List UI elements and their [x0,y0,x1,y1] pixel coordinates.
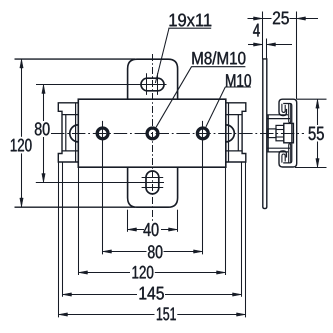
right cap inner face [228,103,230,162]
clamp bottom arm upper edge [267,147,290,149]
left cap semicircle [70,125,79,142]
dimension line 4 right tail [267,44,293,46]
extension line 4 right [266,39,268,59]
extension line 151 left [58,162,60,317]
hole center M8/M10 [147,128,158,139]
left cap inner step lower [62,150,78,152]
crosshair/extension line through left hole [102,121,104,255]
label 55 at (315.9,133.4) [309,127,324,140]
extension line 80-dim bottom / bottom slot centerline [36,182,164,184]
side view bottom lip u [289,144,291,163]
dimension line 25 right tail [290,18,319,20]
arrow 80 down [42,174,45,183]
right end cap outline [226,103,246,162]
dimension line 120 vertical [21,59,23,137]
arrow 120 up [20,59,23,68]
right cap inner step lower [226,150,242,152]
top slot tick right [157,73,159,95]
label 120 at (142.4,272.2) [133,266,154,279]
underline 19x11 [168,27,211,29]
side view C-profile inner wall [283,104,292,163]
leader M10 [206,87,225,127]
right cap inner step upper [226,114,242,116]
left end cap outline [58,103,78,162]
label 40 at (150.8,229.5) [143,223,158,236]
extension line 40 left [127,210,129,232]
right cap semicircle [226,125,235,142]
clamp flange inner lower line [276,136,284,138]
clamp top arm lower edge [267,118,290,120]
clamp stem rect [268,129,276,138]
extension line 25 right [296,12,298,100]
underline M10 [225,86,251,88]
dimension line 151 [59,314,155,316]
arrow 55 up [316,99,319,108]
arrow 25 left [254,17,263,20]
extension line 120-dim bottom [15,206,136,208]
side view top hook inner curl [282,104,285,113]
clamp big square [284,123,294,142]
arrow 145 right [233,293,242,296]
top mounting tab [128,59,178,99]
arrow 120b right [217,271,226,274]
bottom slot tick upper [142,177,164,179]
extension line 145 right [241,162,243,297]
extension line 151 right [245,162,247,317]
arrow 145 left [63,293,72,296]
clamp bottom arm lower edge [267,151,288,153]
label 80 at (154.9,251.8) [148,245,162,258]
leader M8/M10 [156,67,191,128]
vertical centerline [152,54,154,223]
extension line 145 left [62,162,64,297]
underline M8/M10 [191,66,245,68]
extension line 55 top [297,98,327,100]
left cap inner face [75,103,77,162]
arrow 151 right [237,313,246,316]
clamp left vertical against plate [267,115,269,152]
bottom slot tick lower [142,187,164,189]
dimension line 145 [63,294,138,296]
dimension line 25 left tail [248,18,272,20]
dimension line 80 bottom [103,251,147,253]
arrow 151 left [59,313,68,316]
extension line 120-dim top [15,58,136,60]
dimension line 40 [128,229,145,231]
side view mounting plate [263,59,267,209]
left cap inner vertical [65,115,67,151]
label 120 at (20.7,145.1) [11,139,32,152]
arrow 80b left [103,250,112,253]
label 151 at (165.9,313.9) [157,308,176,321]
label 4 at (256.3,30.1) [253,24,260,37]
crosshair/extension line through right hole [202,121,204,255]
top slot tick left [146,73,148,95]
right cap inner vertical [237,115,239,151]
extension line 40 right [177,210,179,232]
arrow 40 right [169,228,178,231]
horizontal centerline [51,133,304,135]
arrow 80 up [42,85,45,94]
label 19x11 at (189.8,20.0) [170,14,212,27]
label 25 at (280.5,17.9) [273,12,289,25]
extension line 25 left [262,12,264,59]
clamp flange inner upper line [276,129,284,131]
bottom slot 11x19 [146,171,159,194]
body (front view main rectangle) [78,99,226,167]
arrow 25 right [297,17,306,20]
arrow 4 right [267,43,276,46]
dimension line 4 left tail [248,44,263,46]
dimension line 80 vertical [43,85,45,122]
dimension line 120 bottom [79,272,131,274]
label 145 at (151.1,293.2) [140,287,164,300]
side view top lip hanging u [289,104,291,123]
label M10 at (238.0,80.5) [226,74,251,87]
side view C-profile outer boundary [279,99,297,167]
top slot 19x11 [141,78,164,91]
hole right M10 [197,128,208,139]
arrow 80b right [194,250,203,253]
extension line 55 bottom [295,167,327,169]
bottom mounting tab [128,167,178,207]
arrow 55 down [316,159,319,168]
clamp flange rect [276,125,284,140]
extension line 120 left [78,167,80,275]
arrow 4 left [254,43,263,46]
extension line 120 right [225,167,227,275]
extension line 80-dim top / top slot centerline [36,84,167,86]
label M8/M10 at (218.3,57.9) [192,51,245,64]
arrow 40 left [128,228,137,231]
clamp top arm upper edge [267,114,288,116]
hole left M10 [97,128,108,139]
dimension line 55 [317,99,319,125]
left cap inner step upper [62,114,78,116]
side view bottom hook inner curl [282,154,285,163]
arrow 120 down [20,198,23,207]
arrow 120b left [79,271,88,274]
leader 19x11 [155,28,169,83]
label 80 at (41.9,128.9) [35,122,50,135]
